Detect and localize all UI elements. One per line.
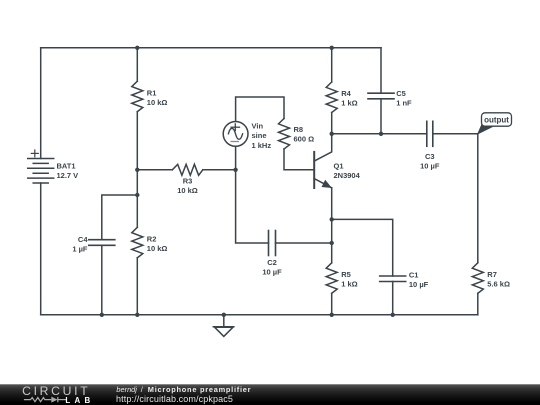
wire battery top to top rail [40, 48, 42, 159]
svg-text:http://circuitlab.com/cpkpac5: http://circuitlab.com/cpkpac5 [116, 394, 233, 404]
svg-text:Q1: Q1 [334, 161, 344, 170]
junction node 5 [233, 168, 237, 172]
svg-text:BAT1: BAT1 [57, 162, 76, 171]
label R1 10 k&#937; [147, 88, 168, 107]
svg-text:1 µF: 1 µF [72, 244, 88, 253]
junction node 13 [330, 313, 334, 317]
junction node 9 [330, 241, 334, 245]
wire collector rail to C3 [332, 133, 427, 135]
junction node 3 [135, 168, 139, 172]
resistor R3 [172, 164, 203, 175]
svg-text:R7: R7 [487, 270, 497, 279]
wire C4 bottom to bottom rail [101, 245, 103, 314]
capacitor C5 [368, 93, 394, 99]
wire R3 right to Vin node [203, 169, 236, 171]
svg-text:output: output [484, 116, 509, 125]
junction node 2 [330, 46, 334, 50]
CircuitLab logo resistor-diode glyph [24, 397, 66, 403]
wire emitter vertical to R5 top [331, 188, 333, 263]
svg-text:R5: R5 [341, 270, 351, 279]
resistor R8 [279, 119, 290, 150]
svg-text:10 kΩ: 10 kΩ [147, 98, 168, 107]
junction node 7 [379, 132, 383, 136]
svg-text:10 µF: 10 µF [262, 268, 282, 277]
label R3 10 k&#937; [177, 177, 198, 196]
svg-text:R8: R8 [294, 125, 304, 134]
wire output node down to R7 top [477, 134, 479, 263]
label R7 5.6 k&#937; [487, 270, 510, 289]
junction node 6 [330, 132, 334, 136]
wire C5 bottom to collector rail [380, 99, 382, 134]
svg-text:sine: sine [252, 131, 267, 140]
junction node 1 [135, 46, 139, 50]
junction node 11 [135, 313, 139, 317]
resistor R5 [326, 263, 337, 294]
svg-text:10 kΩ: 10 kΩ [147, 244, 168, 253]
svg-text:1 nF: 1 nF [396, 98, 412, 107]
junction node 10 [100, 313, 104, 317]
svg-text:10 kΩ: 10 kΩ [177, 186, 198, 195]
svg-text:5.6 kΩ: 5.6 kΩ [487, 279, 510, 288]
svg-text:R3: R3 [183, 177, 193, 186]
label C2 10 &#181;F [262, 258, 282, 277]
ground [213, 315, 234, 337]
svg-text:R4: R4 [341, 89, 351, 98]
svg-text:berndj/Microphone preamplifier: berndj/Microphone preamplifier [116, 385, 251, 394]
wire R7 bottom to bottom rail [477, 293, 479, 315]
wire R1 bottom to R2 top [136, 112, 138, 228]
junction node 12 [222, 313, 226, 317]
svg-text:LAB: LAB [65, 396, 94, 405]
svg-text:R2: R2 [147, 235, 157, 244]
battery BAT1 [28, 150, 54, 183]
label C5 1 nF [396, 89, 412, 108]
label C4 1 &#181;F [72, 235, 88, 254]
wire top rail [41, 47, 381, 49]
label R4 1 k&#937; [341, 89, 357, 108]
svg-text:1 kΩ: 1 kΩ [341, 98, 357, 107]
resistor R2 [132, 227, 143, 257]
wire R8 bottom to Q1 base [284, 149, 313, 170]
svg-text:C3: C3 [425, 152, 435, 161]
svg-text:C5: C5 [396, 89, 406, 98]
resistor R4 [326, 82, 337, 113]
capacitor C1 [380, 276, 406, 282]
svg-text:1 kHz: 1 kHz [252, 141, 272, 150]
svg-text:R1: R1 [147, 88, 157, 97]
wire R5 bottom to bottom rail [331, 293, 333, 315]
capacitor C4 [89, 240, 115, 246]
junction node 14 [391, 313, 395, 317]
svg-text:600 Ω: 600 Ω [294, 135, 315, 144]
wire R4 bottom to collector node [331, 113, 333, 134]
wire Vin top to R8 top [236, 97, 284, 121]
resistor R7 [472, 263, 483, 294]
label BAT1 12.7 V [57, 162, 79, 181]
wire C4 branch from node to top plate [102, 195, 138, 240]
junction node 8 [330, 217, 334, 221]
wire bottom rail [41, 314, 478, 316]
label C1 10 &#181;F [409, 270, 429, 289]
wire battery bottom to bottom rail [40, 183, 42, 315]
bottom credit bar [0, 384, 540, 405]
wire R3 left [137, 169, 172, 171]
svg-text:2N3904: 2N3904 [334, 171, 361, 180]
svg-text:C2: C2 [267, 258, 277, 267]
svg-text:Vin: Vin [252, 122, 264, 131]
wire R1 top stub [136, 48, 138, 81]
source Vin sine [223, 121, 248, 146]
wire Vin bottom down to C2 left [236, 146, 269, 243]
wire C3 to output node [433, 133, 478, 135]
label Vin sine 1 kHz [252, 122, 272, 150]
wire C1 bottom to bottom rail [392, 282, 394, 315]
output flag [478, 113, 512, 134]
svg-text:12.7 V: 12.7 V [57, 171, 79, 180]
wire C1 branch from emitter node [332, 219, 393, 276]
junction node 4 [135, 193, 139, 197]
label R5 1 k&#937; [341, 270, 357, 289]
svg-text:10 µF: 10 µF [409, 280, 429, 289]
wire R4 top stub [331, 48, 333, 82]
svg-text:C1: C1 [409, 270, 419, 279]
label C3 10 &#181;F [420, 152, 440, 171]
wire C5 top drop [380, 48, 382, 93]
wire R2 bottom to bottom rail [136, 258, 138, 315]
svg-text:10 µF: 10 µF [420, 161, 440, 170]
svg-text:1 kΩ: 1 kΩ [341, 279, 357, 288]
transistor Q1 [314, 134, 332, 188]
label R8 600 &#937; [294, 125, 315, 144]
capacitor C3 [427, 121, 433, 146]
label Q1 2N3904 [334, 161, 361, 180]
label R2 10 k&#937; [147, 235, 168, 254]
svg-text:C4: C4 [78, 235, 88, 244]
capacitor C2 [269, 231, 276, 256]
wire C2 right to emitter node [276, 242, 332, 244]
resistor R1 [132, 81, 143, 112]
